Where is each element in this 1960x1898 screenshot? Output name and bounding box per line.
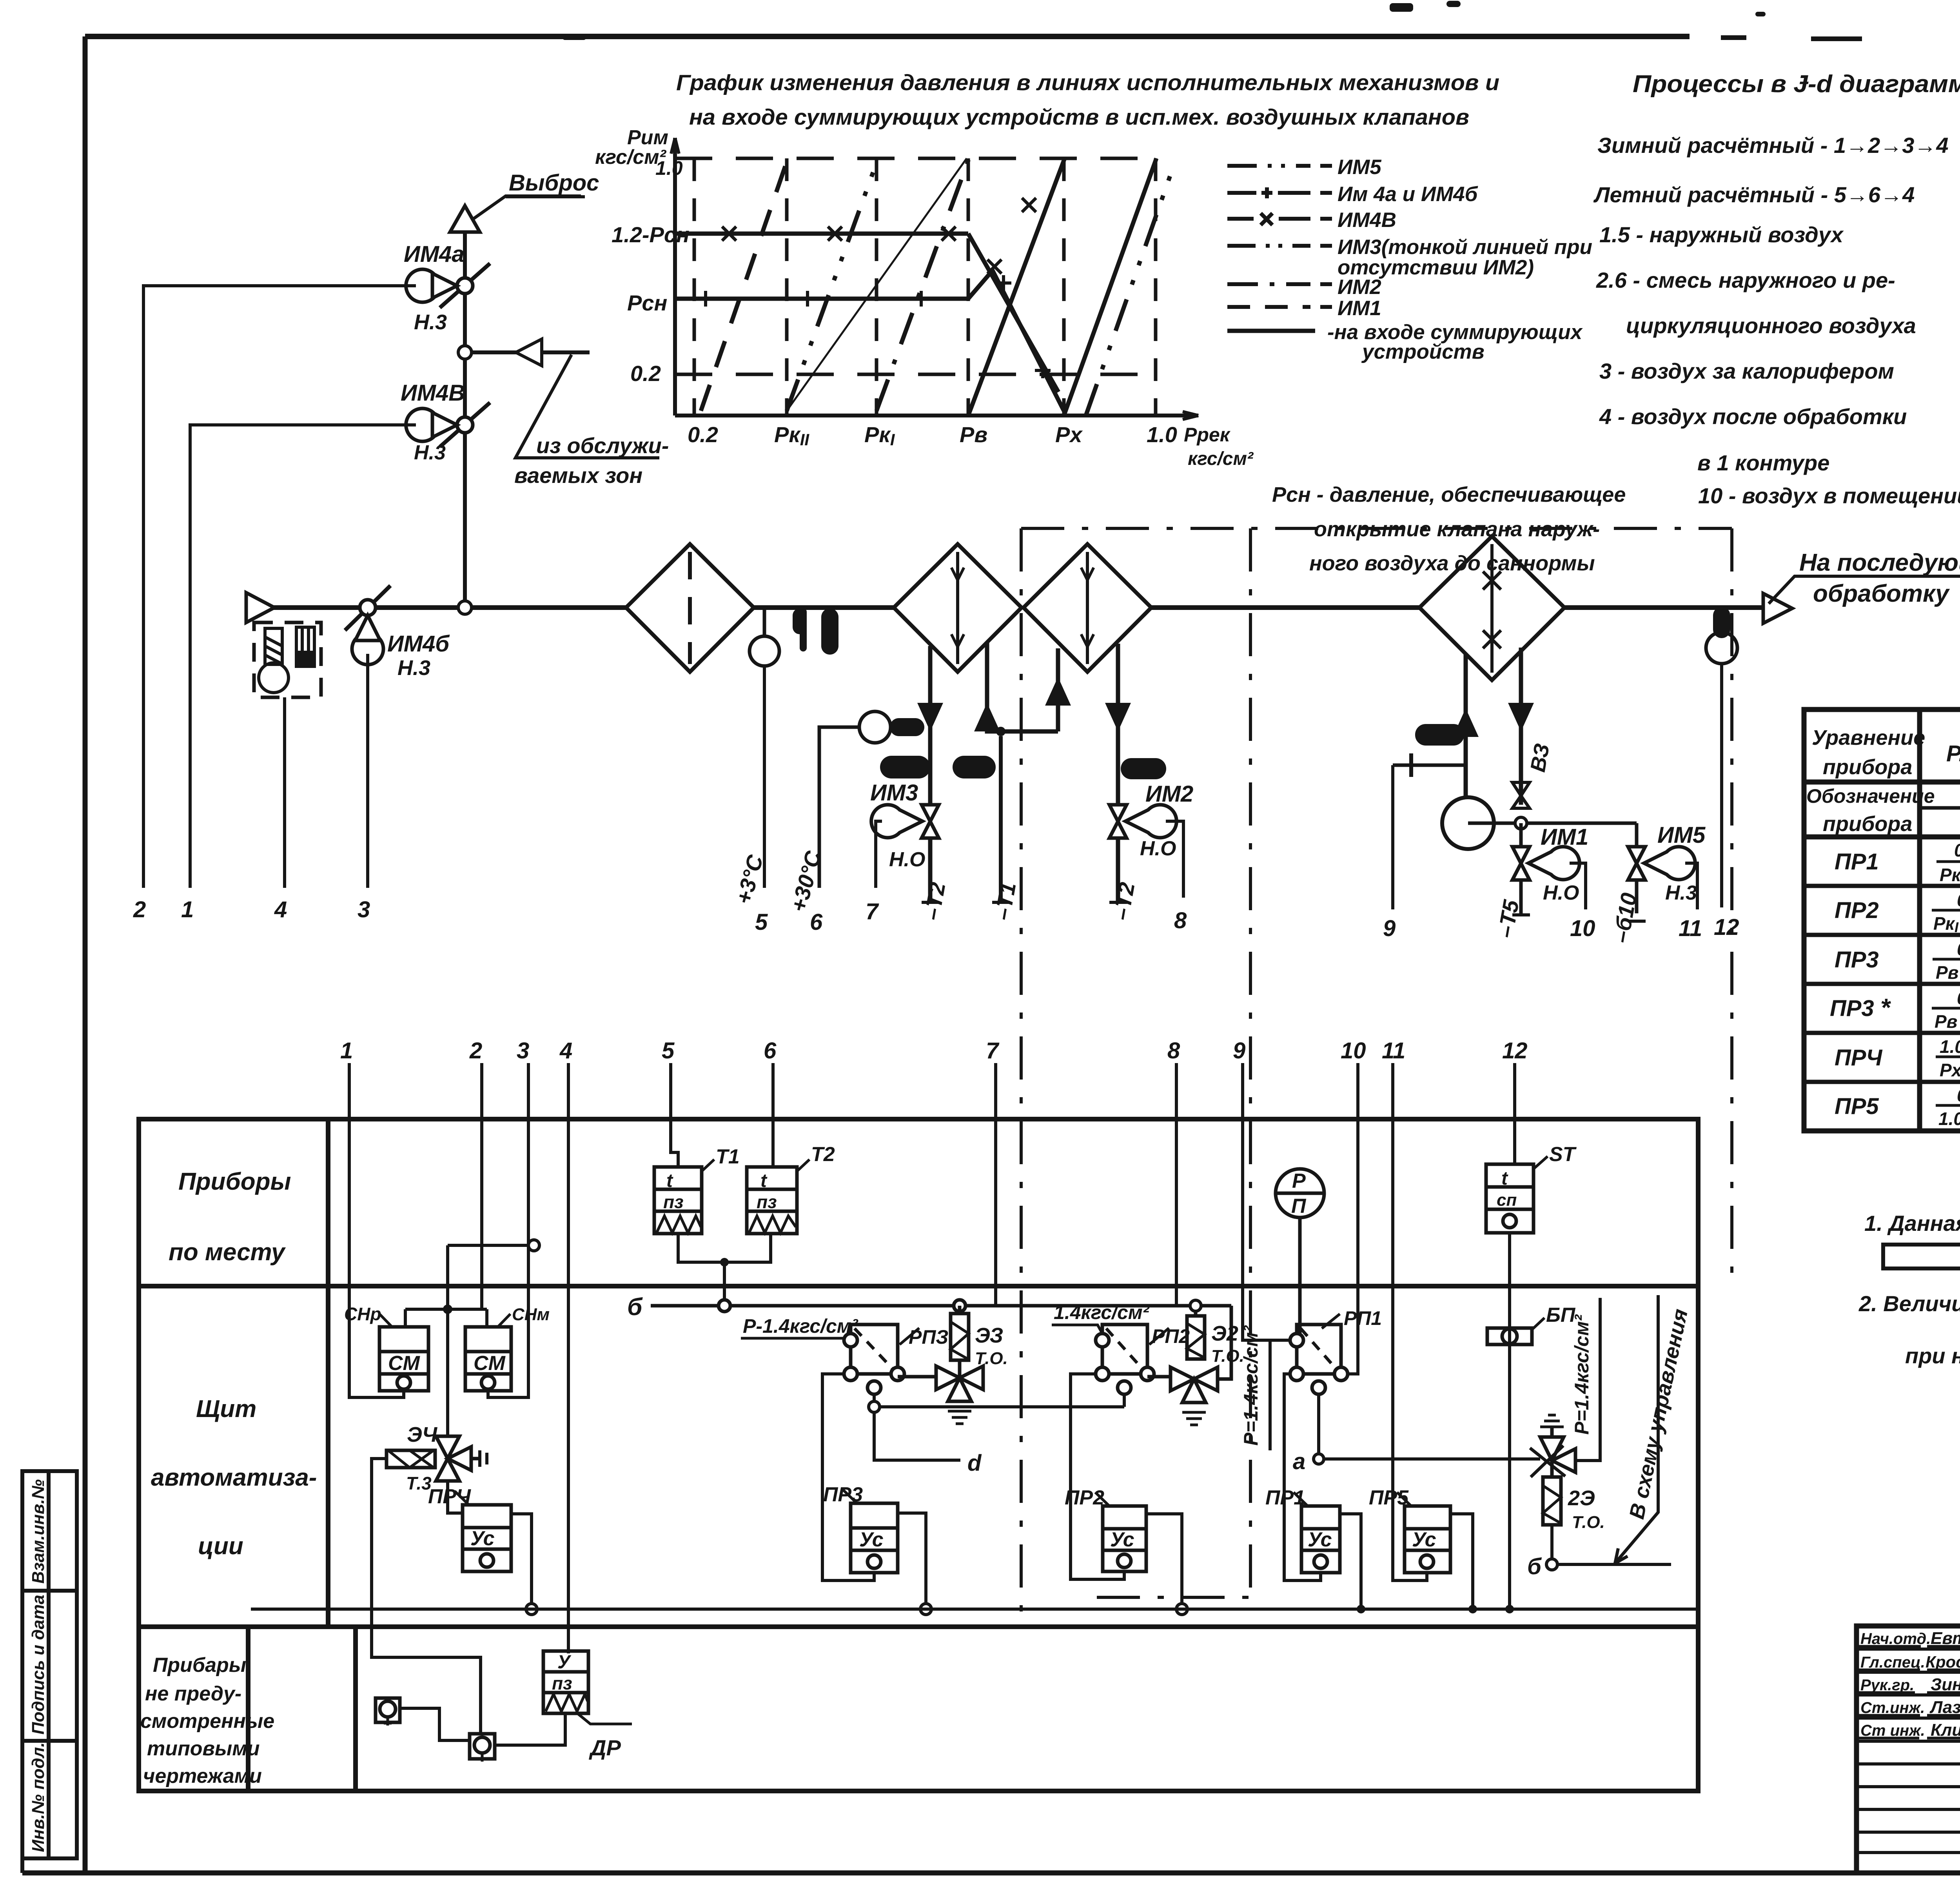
svg-text:2: 2 (133, 897, 146, 922)
svg-text:СМ: СМ (474, 1352, 506, 1375)
chart X axis (675, 414, 1198, 417)
legend line IM5 (1227, 164, 1332, 168)
pipe D arrow down (1105, 703, 1131, 731)
T1 sense line (999, 736, 1003, 902)
node link w2-w3 (448, 1240, 539, 1309)
svg-text:8: 8 (1167, 1038, 1180, 1063)
wire 7 from IM3 (876, 821, 882, 888)
table1 row PR3 (1835, 939, 1960, 984)
controller PR2 (1103, 1506, 1146, 1571)
svg-text:Н.3: Н.3 (414, 441, 446, 464)
wire 6 to T2 (771, 1063, 775, 1167)
svg-text:1. Данная схема применена дл: 1. Данная схема применена для следующих … (1864, 1211, 1960, 1236)
svg-text:2. Величины давлений РкII: 2. Величины давлений РкII , РкI , Рв , Р… (1858, 1291, 1960, 1318)
svg-text:типовыми: типовыми (147, 1737, 260, 1760)
pressure chart title (676, 70, 1499, 130)
black capsule on pipe A (880, 756, 930, 778)
SM loop wires (349, 1245, 528, 1397)
svg-text:Прибары: Прибары (153, 1654, 246, 1677)
legend labels (1327, 156, 1592, 363)
T1 sensor box (654, 1167, 702, 1234)
svg-text:11: 11 (1382, 1038, 1405, 1063)
wire 5 to T1 (671, 1063, 678, 1167)
legend line IM4V (1227, 213, 1332, 225)
svg-text:Щит: Щит (196, 1395, 256, 1423)
svg-text:автоматиза-: автоматиза- (151, 1464, 317, 1491)
exhaust outlet triangle (450, 206, 480, 232)
chart vertical dashed x=0.2 (693, 158, 696, 416)
RP3 output to d (869, 1394, 1124, 1460)
chart vertical dashed x=PkII (785, 158, 789, 416)
valve IM5 (1628, 823, 1695, 913)
solenoid 2E (1543, 1461, 1561, 1525)
svg-text:Н.О: Н.О (1140, 837, 1176, 860)
svg-text:Н.О: Н.О (1543, 882, 1579, 904)
valve IM1 (1512, 823, 1579, 913)
svg-text:Ус: Ус (1110, 1528, 1134, 1551)
sensor capsule T2 (890, 718, 924, 736)
svg-text:7: 7 (986, 1038, 1000, 1063)
chart line solid rising at Px (1064, 158, 1156, 416)
valve IM3 (871, 805, 939, 838)
pipe B with arrow up (987, 642, 1058, 731)
wire 1 to SM box (349, 1063, 404, 1397)
svg-text:смотренные: смотренные (140, 1710, 274, 1733)
svg-text:Н.3: Н.3 (1665, 882, 1697, 904)
svg-text:по месту: по месту (169, 1239, 286, 1266)
svg-text:10: 10 (1341, 1038, 1366, 1063)
svg-text:5: 5 (755, 909, 768, 935)
svg-text:не преду-: не преду- (145, 1682, 241, 1705)
chart vertical dashed x=1.0 (1154, 158, 1158, 416)
svg-text:при наладке: при наладке (1905, 1343, 1960, 1368)
node b right (1546, 1525, 1671, 1570)
legend line solid (1227, 329, 1315, 333)
svg-text:Р=1.4кгс/см²: Р=1.4кгс/см² (1240, 1325, 1262, 1446)
svg-text:Ст инж.: Ст инж. (1860, 1722, 1925, 1739)
title block frame (1857, 1626, 1960, 1873)
chart line solid rising at Pv (968, 158, 1065, 416)
svg-text:Уравнение: Уравнение (1812, 726, 1925, 749)
pipe A arrow down (917, 703, 943, 731)
recirc line from zones (472, 350, 590, 354)
svg-text:б: б (1527, 1554, 1542, 1579)
pipe D (1116, 644, 1120, 902)
chart line IM3 rising dashdotdot (787, 158, 878, 411)
svg-text:11: 11 (1679, 916, 1702, 941)
T1 junction (996, 727, 1005, 736)
svg-text:Н.3: Н.3 (414, 310, 447, 334)
pipe C arrow up (1056, 648, 1060, 731)
table1 row PR4 (1835, 1036, 1960, 1080)
svg-text:Т.О.: Т.О. (975, 1349, 1008, 1368)
svg-text:1.0-Рсн: 1.0-Рсн (1940, 1036, 1960, 1057)
svg-text:ции: ции (198, 1533, 243, 1560)
chart line IM2 rising dashdot (877, 158, 969, 411)
svg-text:0.2: 0.2 (688, 422, 718, 447)
svg-text:Т2: Т2 (811, 1143, 835, 1166)
wire 8 from IM2 (1166, 821, 1183, 898)
PR5 loop wires (1393, 1497, 1477, 1613)
bottom row wiring (400, 1708, 565, 1745)
pump outlet line (1468, 822, 1637, 825)
legend line IM4a IM4b (1227, 187, 1332, 198)
svg-text:ВЗ: ВЗ (1526, 742, 1554, 774)
svg-text:циркуляционного воздуха: циркуляционного воздуха (1626, 313, 1916, 338)
svg-text:Кростошевский: Кростошевский (1926, 1653, 1960, 1671)
svg-text:чертежами: чертежами (143, 1765, 262, 1787)
wire 10 to RP1 right port (1348, 1063, 1358, 1374)
chart line IM4a descending after Pv (968, 270, 1064, 411)
svg-text:t: t (1501, 1168, 1508, 1189)
svg-text:9: 9 (1383, 916, 1396, 941)
svg-text:3: 3 (358, 897, 370, 922)
chart Y axis (673, 138, 677, 416)
chart vertical dashed x=Pv (967, 158, 970, 416)
svg-text:Им 4а и ИМ4б: Им 4а и ИМ4б (1338, 183, 1478, 206)
svg-text:Ус: Ус (1308, 1528, 1332, 1551)
settings table PR1-PR5 (1804, 709, 1960, 1131)
table1 row PR3* (1830, 988, 1960, 1033)
svg-text:Зимний расчётный - 1→2→3→4: Зимний расчётный - 1→2→3→4 (1597, 133, 1949, 158)
svg-text:ваемых зон: ваемых зон (514, 463, 642, 488)
svg-text:Выброс: Выброс (509, 170, 599, 196)
svg-text:2: 2 (469, 1038, 482, 1063)
RP1 supply stub (1270, 1340, 1290, 1450)
node b bus (651, 1300, 1231, 1312)
svg-text:Р: Р (1292, 1170, 1306, 1192)
chart plus markers (698, 275, 1051, 378)
svg-text:Приборы: Приборы (178, 1168, 291, 1195)
svg-text:Взам.инв.№: Взам.инв.№ (29, 1479, 48, 1584)
svg-text:У: У (557, 1652, 572, 1673)
thermometer in box (259, 628, 289, 693)
RP2 output drop (1123, 1394, 1126, 1407)
svg-text:Ус: Ус (470, 1527, 495, 1550)
black capsule on pipe D (1121, 758, 1166, 779)
svg-text:Рв - РкI: Рв - РкI (1936, 962, 1960, 984)
svg-text:0.8: 0.8 (1957, 1085, 1960, 1105)
svg-text:ЭЗ: ЭЗ (975, 1324, 1003, 1347)
svg-text:в 1 контуре: в 1 контуре (1697, 450, 1829, 475)
wire 11 (1685, 863, 1697, 909)
relay RP3 (844, 1325, 904, 1394)
svg-text:ИМ4а: ИМ4а (404, 241, 465, 267)
AHU main duct (264, 605, 1763, 610)
svg-text:ДР: ДР (589, 1735, 621, 1760)
gauge R P (1276, 1169, 1324, 1334)
valve IM4v (406, 403, 490, 447)
svg-text:9: 9 (1233, 1038, 1245, 1063)
svg-text:d: d (967, 1450, 982, 1476)
leader Vybros (472, 196, 581, 220)
svg-text:ПР3 *: ПР3 * (1830, 993, 1891, 1022)
svg-text:SТ: SТ (1549, 1143, 1577, 1166)
svg-text:ПРЧ: ПРЧ (1835, 1045, 1883, 1071)
wire 10 (1570, 863, 1586, 909)
svg-text:ИМ3(тонкой линией при: ИМ3(тонкой линией при (1338, 236, 1592, 259)
3way valve RP3 (898, 1360, 983, 1424)
chart axis labels (595, 126, 1254, 469)
PR3 loop wires (822, 1374, 931, 1615)
SM top bus (405, 1305, 487, 1435)
scan noise specks top (563, 1, 1960, 40)
chart line IM3 thin variant (787, 158, 967, 411)
duct inlet arrow (246, 593, 274, 622)
sensor +3C circle (750, 608, 779, 666)
chart line IM5 rising dashdotdot (1086, 165, 1174, 416)
svg-text:Рсн - давление, обеспечивающее: Рсн - давление, обеспечивающее (1272, 483, 1626, 506)
svg-text:1.0: 1.0 (655, 157, 683, 179)
legend line IM1 (1227, 305, 1332, 309)
svg-text:устройств: устройств (1361, 340, 1485, 363)
pump (1442, 797, 1494, 849)
svg-text:ИМ2: ИМ2 (1338, 276, 1381, 299)
svg-text:4: 4 (274, 897, 287, 922)
legend line IM2 (1227, 282, 1332, 286)
svg-text:0.8: 0.8 (1957, 939, 1960, 959)
chart line IM1 rising dashed (701, 158, 788, 411)
svg-text:Рсн: Рсн (627, 290, 667, 315)
Jd processes text (1593, 133, 1960, 508)
svg-text:ИМ5: ИМ5 (1657, 822, 1706, 848)
svg-text:б: б (627, 1294, 643, 1321)
svg-text:РП1: РП1 (1344, 1307, 1382, 1329)
svg-text:прибора: прибора (1823, 755, 1912, 779)
svg-text:ИМ2: ИМ2 (1145, 781, 1193, 807)
exhaust riser wire (463, 220, 467, 608)
svg-text:Н.3: Н.3 (397, 656, 430, 680)
svg-text:ного воздуха до саннормы: ного воздуха до саннормы (1309, 552, 1595, 575)
dashdot boundary bracket (1021, 528, 1732, 1619)
svg-text:СНм: СНм (512, 1305, 550, 1324)
svg-text:ПР2: ПР2 (1835, 898, 1879, 923)
svg-text:обработку: обработку (1813, 580, 1950, 607)
local instrument dashed box (254, 622, 321, 697)
diamond fan section (626, 544, 754, 672)
svg-text:ПР3: ПР3 (823, 1483, 863, 1506)
legend line IM3 (1227, 244, 1332, 248)
svg-text:ИМ3: ИМ3 (870, 780, 918, 806)
humidity sensor (1706, 632, 1737, 664)
T2 sensor box (747, 1167, 797, 1234)
Pсн note (1272, 483, 1626, 575)
svg-text:8: 8 (1174, 908, 1187, 933)
svg-text:Ус: Ус (1412, 1528, 1436, 1551)
svg-text:ИМ4В: ИМ4В (401, 380, 465, 406)
wire 12 to ST box (1513, 1063, 1516, 1164)
svg-text:а: а (1293, 1449, 1305, 1474)
svg-text:ПР5: ПР5 (1369, 1486, 1409, 1509)
table1 row PR1 (1835, 840, 1960, 887)
PR4 wires (448, 1481, 537, 1615)
svg-text:Ст.инж.: Ст.инж. (1860, 1699, 1925, 1717)
svg-text:из обслужи-: из обслужи- (536, 433, 669, 458)
svg-text:6: 6 (810, 909, 823, 935)
controller PR1 (1301, 1506, 1340, 1573)
wire 5 (763, 666, 766, 888)
svg-text:Гл.спец.: Гл.спец. (1860, 1654, 1925, 1671)
svg-text:Рв: Рв (960, 422, 987, 447)
wire 8 to b bus (1175, 1063, 1178, 1306)
stamp box Взам.инв.№ (22, 1471, 77, 1591)
recirc arrow (516, 339, 542, 366)
wire 4 to U box (567, 1063, 570, 1653)
svg-text:Подпись и дата: Подпись и дата (29, 1595, 48, 1735)
thermometer black capsule A (793, 608, 838, 655)
svg-text:РкII -0.2: РкII -0.2 (1940, 865, 1960, 887)
svg-text:10 - воздух в помещении: 10 - воздух в помещении (1698, 483, 1960, 508)
svg-text:4 - воздух после обработки: 4 - воздух после обработки (1599, 404, 1907, 429)
wire 2 from IM4a (143, 286, 416, 888)
wire 3 from IM4b (366, 654, 369, 888)
chart gridline y=0.2 dashed (675, 373, 1158, 376)
wire 7 to b bus (994, 1063, 997, 1306)
chart line IM4 plus horizontal Pcн (675, 297, 968, 301)
svg-text:Ррек: Ррек (1184, 424, 1231, 446)
svg-text:ПР1: ПР1 (1835, 849, 1879, 875)
svg-text:7: 7 (866, 899, 879, 924)
wire 4 from instrument box (283, 697, 286, 888)
svg-text:Инв.№ подл.: Инв.№ подл. (29, 1742, 48, 1852)
pipe F arrow down (1508, 703, 1534, 731)
svg-text:3 - воздух за калорифером: 3 - воздух за калорифером (1599, 359, 1894, 383)
controller PR3 (851, 1503, 898, 1573)
svg-text:Т.О.: Т.О. (1572, 1513, 1605, 1532)
svg-text:сп: сп (1497, 1190, 1517, 1210)
title block names (1860, 1629, 1960, 1740)
svg-text:ИМ1: ИМ1 (1338, 297, 1381, 320)
controller PR5 (1405, 1506, 1450, 1573)
svg-text:кгс/см²: кгс/см² (1188, 448, 1254, 469)
pipe E arrow up (1453, 708, 1479, 737)
chart x markers (722, 198, 1036, 274)
sensor +30C circle (819, 711, 891, 888)
chart line IM4V horizontal 1.2-Pcн (675, 232, 968, 236)
svg-text:ИМ4В: ИМ4В (1338, 209, 1396, 232)
svg-text:Процессы в Ɉ-d диаграмме: Процессы в Ɉ-d диаграмме (1633, 71, 1960, 98)
svg-text:Р.вых = К(Рвх–Р3) + Ро: Р.вых = К(Рвх–Р3) + Ро (1946, 741, 1960, 766)
svg-text:ПР5: ПР5 (1835, 1094, 1879, 1119)
wire 12 (1720, 664, 1723, 907)
svg-text:Т.О.: Т.О. (1211, 1346, 1244, 1366)
svg-text:1.2-Рсн: 1.2-Рсн (612, 222, 690, 247)
stamp box Подпись и дата (22, 1591, 77, 1741)
wire 9 (1391, 765, 1394, 909)
black capsule left of pipe E (1415, 724, 1464, 746)
svg-text:Рв -РкII: Рв -РкII (1935, 1011, 1960, 1033)
junction to recirc (458, 346, 472, 359)
node a line (1314, 1394, 1540, 1464)
svg-text:Э2: Э2 (1211, 1322, 1238, 1345)
solenoid E2 (1187, 1306, 1205, 1359)
svg-text:на входе суммирующих устройст: на входе суммирующих устройств в исп.мех… (689, 105, 1469, 130)
chart gridline y=1.0 dashed (675, 157, 1158, 160)
junction pump line pipe F (1515, 817, 1527, 829)
wire 3 (527, 1063, 530, 1245)
svg-text:ИМ5: ИМ5 (1338, 156, 1382, 179)
svg-text:пз: пз (663, 1192, 684, 1212)
svg-text:Р=1.4кгс/см²: Р=1.4кгс/см² (1571, 1314, 1593, 1435)
junction duct-riser (458, 601, 472, 614)
svg-text:12: 12 (1502, 1038, 1528, 1063)
sensor box ST (1486, 1164, 1534, 1233)
diamond cooler (1419, 536, 1564, 680)
3way valve RP2 (1147, 1306, 1231, 1425)
svg-text:1.5 - наружный воздух: 1.5 - наружный воздух (1599, 222, 1844, 247)
svg-text:2.6 - смесь наружного и ре: 2.6 - смесь наружного и ре- (1596, 268, 1895, 292)
leader Na posleduyushchuyu (1769, 576, 1960, 604)
svg-text:t: t (666, 1170, 673, 1191)
stamp labels (29, 1479, 48, 1852)
PR1 loop wires (1284, 1374, 1365, 1613)
svg-text:Рх -Рв: Рх -Рв (1940, 1060, 1960, 1080)
row label panel (151, 1395, 317, 1560)
stamp box Инв.№ подл. (22, 1741, 77, 1858)
wire 9 to RP1 (1243, 1063, 1290, 1340)
row label instruments local (169, 1168, 291, 1266)
gauge in box (296, 627, 314, 666)
block BP (1487, 1328, 1532, 1345)
svg-text:0.8: 0.8 (1957, 890, 1960, 910)
svg-text:График изменения давления в: График изменения давления в линиях испол… (676, 70, 1499, 95)
svg-text:6: 6 (764, 1038, 777, 1063)
pipe A from heater KI (928, 646, 933, 902)
svg-text:На последующую: На последующую (1799, 549, 1960, 576)
relay RP2 (1096, 1325, 1154, 1394)
svg-text:1: 1 (340, 1038, 353, 1063)
3way valve 2E (1530, 1415, 1575, 1477)
svg-text:РП2: РП2 (1152, 1325, 1190, 1347)
duct outlet arrow (1763, 593, 1792, 623)
svg-text:Р-1.4кгс/см²: Р-1.4кгс/см² (743, 1315, 858, 1337)
solenoid ECh (387, 1450, 435, 1468)
pipe E under cooler (1464, 654, 1468, 798)
svg-text:5: 5 (662, 1038, 675, 1063)
T sensor stub (1393, 753, 1466, 777)
wire 11 to PR5 (1391, 1063, 1394, 1497)
svg-text:ИМ1: ИМ1 (1541, 824, 1588, 850)
pipe F under cooler (1519, 648, 1523, 805)
svg-text:ПР3: ПР3 (1835, 947, 1879, 973)
svg-text:ПРЧ: ПРЧ (428, 1485, 471, 1508)
title block signature rows (1857, 1649, 1960, 1853)
svg-text:0.8: 0.8 (1957, 988, 1960, 1008)
svg-text:1: 1 (181, 897, 194, 922)
controller PR4 (463, 1505, 511, 1571)
svg-text:0.2: 0.2 (630, 361, 661, 386)
svg-text:Рук.гр.: Рук.гр. (1860, 1677, 1914, 1694)
chart vertical dashed x=PkI (875, 158, 878, 416)
leader v shemu upravleniya (1615, 1295, 1658, 1563)
svg-text:прибора: прибора (1823, 812, 1912, 836)
svg-text:СНр: СНр (344, 1304, 381, 1324)
svg-text:пз: пз (552, 1673, 572, 1693)
valve IM4b on duct (345, 586, 390, 665)
regulator U box (543, 1651, 588, 1713)
ST wire down (1508, 1233, 1511, 1609)
svg-text:1.0-Рх: 1.0-Рх (1938, 1109, 1960, 1129)
svg-text:Н.О: Н.О (889, 848, 925, 871)
svg-text:Рх: Рх (1055, 422, 1083, 447)
check valve on pipe F (1512, 782, 1530, 808)
svg-text:4: 4 (559, 1038, 572, 1063)
svg-text:2Э: 2Э (1568, 1486, 1595, 1510)
chart line IM4V descending after Pv (968, 234, 1058, 392)
svg-text:П: П (1291, 1195, 1307, 1218)
chart vertical dashed x=Px (1062, 158, 1066, 416)
solenoid E3 (951, 1306, 969, 1360)
